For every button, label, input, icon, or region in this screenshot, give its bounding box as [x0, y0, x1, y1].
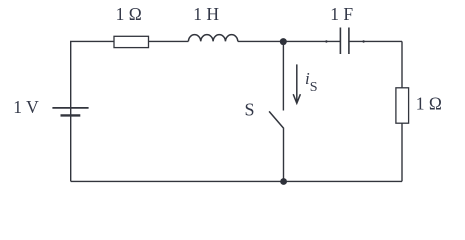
svg-text:S: S	[245, 100, 255, 120]
wire: C1 to top-right corner	[349, 40, 402, 42]
svg-text:iS: iS	[305, 69, 318, 95]
svg-text:1 F: 1 F	[330, 4, 353, 24]
connection dot (left of C1)	[325, 40, 327, 42]
svg-text:1 V: 1 V	[13, 97, 39, 117]
wire: bottom	[71, 180, 402, 182]
wire: right vertical top	[401, 41, 403, 87]
voltage source 1 V (battery)	[52, 108, 88, 116]
wire: right vertical bottom	[401, 123, 403, 181]
switch S (open blade)	[269, 111, 284, 128]
wire: R1 to L1	[149, 40, 189, 42]
wire: switch branch upper	[282, 42, 284, 111]
wire: switch branch lower	[283, 129, 285, 182]
svg-text:1 H: 1 H	[193, 4, 219, 24]
svg-text:1 Ω: 1 Ω	[416, 94, 442, 114]
node A (junction dot)	[280, 38, 287, 45]
resistor R1	[114, 36, 149, 47]
wire: top, battery to R1	[70, 40, 114, 42]
resistor R2	[396, 88, 409, 123]
svg-text:1 Ω: 1 Ω	[116, 4, 142, 24]
wire: node A to C1	[283, 40, 340, 42]
node B (bottom junction dot)	[280, 178, 287, 185]
capacitor C1	[340, 28, 349, 55]
inductor L1	[188, 35, 237, 42]
wire: L1 to node A	[238, 40, 283, 42]
wire: left vertical (battery branch)	[70, 41, 72, 181]
connection dot (right of C1)	[362, 40, 364, 42]
current arrow iS	[293, 64, 300, 103]
